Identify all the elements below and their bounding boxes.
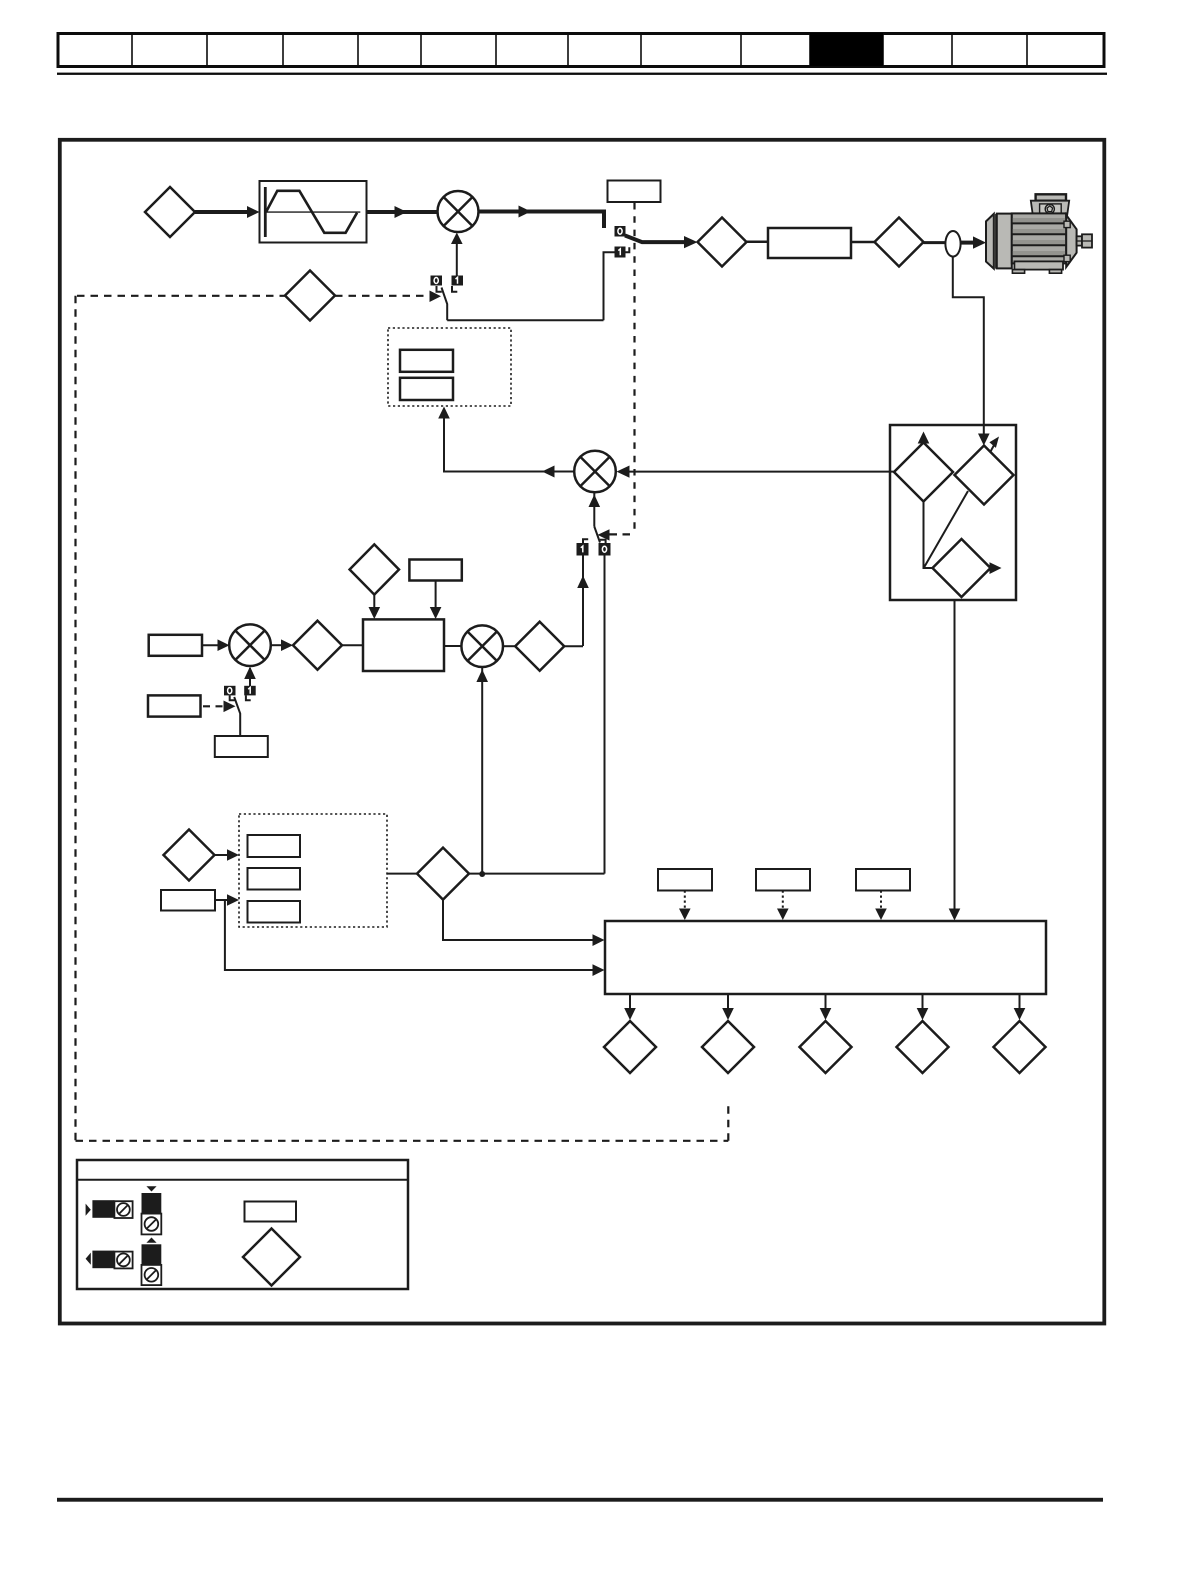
wire sequencer to status 2 (727, 994, 729, 1014)
motor bottom rail (1014, 261, 1063, 269)
node: status diamond 1 (604, 1021, 656, 1073)
dashed wire into hidden diamond (77, 295, 285, 297)
arrowhead up into U3 (244, 667, 256, 680)
main diagram border box (60, 140, 1105, 1324)
arrowhead into multiplier right side (617, 466, 630, 478)
wire: block bottom output down to drive sequencer (954, 600, 956, 914)
switch S2 arm and common (234, 697, 240, 736)
multiplier U2 (frequency circle) (461, 625, 503, 667)
arrowhead mid-wire up (577, 576, 589, 589)
arrowhead into U3 (218, 639, 230, 651)
motor right tabs (1064, 221, 1070, 227)
wire: U2 bottom input from junction (481, 668, 483, 874)
node: status diamond 4 (897, 1021, 949, 1073)
motor collar under box (1034, 219, 1067, 226)
legend vertical parameter box (142, 1214, 162, 1235)
wire: diamond to output terminal (924, 241, 946, 244)
parameter box P2 (248, 868, 301, 890)
legend parameter diamond (243, 1229, 300, 1286)
arrowhead out of top (current magnitude) (923, 438, 925, 443)
wire: diamond bottom to sequencer (443, 900, 598, 940)
arrowhead out right (magnetising current) (991, 567, 996, 569)
switch S2 terminal 0 (224, 686, 236, 696)
wire sequencer to status 3 (825, 994, 827, 1014)
legend down arrow (146, 1186, 156, 1191)
node: status diamond 5 (994, 1021, 1046, 1073)
header table frame (58, 34, 1104, 67)
drive sequencer block (605, 921, 1046, 994)
wire: S3 terminal 1 down to torque chain (582, 556, 584, 647)
wire: S1 common feedback line (447, 319, 603, 321)
wire: S3 terminal 0 down to lower junction (604, 556, 606, 874)
motor M1 (986, 194, 1092, 273)
switch S1 arm and common wire (442, 288, 448, 321)
wire: diagonal inside block (924, 491, 968, 568)
dashed bottom boundary wire (76, 1140, 729, 1142)
wire: diamond into dotted group (215, 854, 233, 856)
wire: block left output toward multiplier (628, 471, 894, 473)
wire: S1 terminal 1 up to multiplier (456, 238, 458, 276)
arrowhead into block top (369, 607, 381, 619)
arrowhead up into U2 (476, 670, 488, 683)
footer rule (57, 1498, 1103, 1502)
arrowhead seq3 (875, 909, 887, 921)
parameter box feeding frequency slip (149, 635, 202, 656)
wire: terminal down to current sense (953, 257, 984, 440)
wire: diamond right to S3-0 line junction (469, 873, 605, 875)
wire sequencer to status 5 (1019, 994, 1021, 1014)
legend title separator (77, 1179, 408, 1181)
parameter box A (400, 350, 453, 372)
motor finned body (1012, 213, 1066, 263)
motor right end cap (1066, 215, 1076, 267)
legend vertical terminal 2 black box (142, 1244, 162, 1265)
ramp block trapezoid waveform (266, 191, 357, 233)
wire: parameter box into block (435, 581, 437, 613)
junction dot (479, 871, 485, 877)
multiplier U3 (slip comp circle) (229, 624, 271, 666)
header underline rule (57, 73, 1107, 75)
wire: diamond to power stage (747, 241, 769, 244)
arrowhead up into multiplier (589, 495, 601, 508)
wire: multiplier bottom to switch S3 (593, 492, 595, 526)
motor cable gland pentagon (1047, 206, 1053, 212)
wire: U3 to post-ramp diamond (271, 644, 287, 646)
motor terminal box body (1031, 201, 1069, 220)
arrowhead into frequency diamond (684, 236, 698, 248)
multiplier U1 (circle with X) (438, 191, 479, 232)
dashed vertical left boundary wire (74, 296, 76, 1141)
arrowhead into sequencer left (lower) (593, 964, 605, 976)
arrowhead seq1 (679, 909, 691, 921)
wire: diamond to frequency control block (342, 644, 363, 646)
wire: multiplier to switch (thick) (479, 212, 605, 229)
legend output parameter symbol (117, 1254, 130, 1267)
ramp block horizontal axis (265, 211, 360, 213)
wire: boost box right with junction (215, 899, 233, 901)
legend output terminal black box (92, 1251, 114, 1269)
motor shaft step (1077, 236, 1082, 245)
arrowhead into dotted group (227, 849, 239, 861)
legend output parameter box (114, 1252, 132, 1269)
parameter box seq2 (756, 869, 810, 891)
motor shaft seam (1077, 240, 1092, 242)
arrowhead into ramp block (247, 206, 260, 218)
dotted parameter group box (388, 328, 511, 406)
motor shaft (1082, 234, 1092, 247)
node: stability gain diamond (350, 544, 399, 594)
power stage block (768, 228, 851, 258)
node: status diamond 3 (800, 1021, 852, 1073)
switch S2 terminal 1 (244, 686, 256, 696)
dotted wire seq2 into sequencer (782, 891, 784, 914)
arrowhead mid-wire left (542, 466, 555, 478)
legend read-write rectangle (245, 1202, 297, 1222)
arrowhead mid-wire (519, 206, 532, 218)
top parameter box (608, 181, 661, 203)
arrowhead mid-wire (395, 206, 408, 218)
legend output terminal arrow (86, 1253, 91, 1265)
dashed control line from top box down (633, 203, 635, 529)
motor foot right (1049, 270, 1061, 274)
arrowhead into motor (973, 236, 986, 248)
wire: power stage to voltage diamond (851, 241, 875, 244)
wire: reference to ramp block (thick) (195, 210, 252, 214)
motor foot left (1012, 270, 1024, 274)
switch S1 terminal-1 stub (452, 286, 457, 292)
legend box (77, 1160, 408, 1289)
wire: multiplier output to parameter box (444, 413, 574, 472)
wire: U2 to output diamond (503, 645, 515, 647)
node: post ramp reference diamond (293, 621, 342, 670)
dashed control wire from vertical to S3 (610, 533, 635, 535)
wire: stability diamond into block (373, 595, 375, 613)
wire into multiplier U3 (202, 644, 223, 646)
current detection block (890, 425, 1016, 600)
switch S3 terminal 0 (599, 543, 611, 556)
node: active current diamond (955, 446, 1014, 505)
switch S1 terminal 1 (452, 276, 464, 286)
legend vertical parameter box 2 (142, 1265, 162, 1285)
wire sequencer to status 4 (922, 994, 924, 1014)
dotted wire seq1 into sequencer (684, 891, 686, 914)
wire: dotted group to voltage diamond (387, 873, 417, 875)
switch S3 terminal 1 (577, 543, 589, 556)
arrowhead at S2 pivot (224, 701, 236, 713)
motor smooth section (997, 214, 1012, 269)
switch S3 terminal-0 stub (600, 540, 606, 545)
motor terminal box inner face (1040, 204, 1062, 217)
motor terminal box top plate (1036, 194, 1066, 200)
arrowhead into current block diamond (978, 434, 990, 446)
ramp block vertical axis (264, 187, 267, 237)
wire: switch S4 terminal 1 to feedback (604, 252, 615, 320)
parameter box seq3 (856, 869, 910, 891)
arrowhead out up-right (active current) (991, 443, 996, 452)
parameter box seq1 (658, 869, 712, 891)
legend input parameter box (114, 1201, 132, 1218)
frequency control block (363, 619, 444, 671)
node: voltage mode selector diamond (164, 830, 215, 881)
wire: ramp block to multiplier (thick) (367, 210, 439, 214)
switch S1 terminal 0 (431, 276, 443, 286)
header table column lines (132, 35, 1027, 65)
switch S1 terminal-0 stub (437, 286, 442, 292)
switch S4 terminal 0 (615, 226, 626, 237)
motor cable gland circle (1045, 204, 1054, 213)
dashed wire from hidden diamond to switch S1 (335, 295, 430, 297)
arrowhead seq2 (777, 909, 789, 921)
parameter box P1 (248, 835, 301, 857)
legend input terminal arrow (86, 1204, 91, 1216)
arrowhead into dotted box bottom (438, 407, 450, 419)
legend input terminal black box (92, 1200, 114, 1218)
node: motor voltage diamond (875, 218, 924, 267)
node: status diamond 2 (702, 1021, 754, 1073)
switch S2 terminal-0 stub (230, 695, 235, 700)
motor left dark strip (994, 214, 997, 269)
motor fin lines (1012, 223, 1066, 256)
arrowhead into multiplier bottom (451, 233, 463, 245)
node: motor frequency diamond (515, 622, 564, 671)
motor fin shading bands (1013, 218, 1065, 256)
legend up arrow (146, 1238, 156, 1243)
parameter box S2 control (148, 695, 201, 716)
wire: current magnitude down to magnetising diamond (924, 502, 933, 569)
motor left end cap (986, 214, 994, 269)
dashed stub up to speed diamond (727, 1105, 729, 1141)
node: output frequency diamond (698, 218, 747, 267)
wire: diamond right to S3 terminal-1 line (564, 645, 583, 647)
parameter box B (400, 378, 453, 400)
parameter box boost (161, 890, 215, 911)
legend vertical parameter symbol (145, 1217, 159, 1231)
multiplier U4 (torque calc circle) (574, 451, 616, 493)
parameter box P3 (248, 901, 301, 923)
node: speed reference diamond (145, 187, 195, 237)
switch S4 terminal 1 (615, 247, 626, 258)
arrowhead into diamond (281, 639, 293, 651)
dashed control wire to S2 (203, 705, 224, 707)
switch S4 arm (to output, thick) (625, 236, 688, 243)
parameter box below S2 (215, 736, 268, 757)
ramp block (260, 181, 367, 243)
wire: terminal to motor (thick) (961, 241, 977, 245)
switch S4 terminal-1 stub (626, 247, 630, 252)
dotted wire seq3 into sequencer (880, 891, 882, 914)
wire: U3 bottom input from switch S2 (249, 668, 251, 686)
wire sequencer to status 1 (629, 994, 631, 1014)
parameter box above block (409, 560, 461, 581)
dotted parameter group box 2 (239, 814, 387, 927)
wire: boost junction down and right to sequencer (225, 900, 598, 970)
switch S2 terminal-1 stub (246, 695, 251, 700)
legend vertical terminal black box (142, 1193, 162, 1214)
legend input parameter symbol (117, 1203, 130, 1216)
legend vertical parameter symbol 2 (145, 1268, 159, 1282)
switch S3 terminal-1 stub (583, 539, 588, 544)
arrowhead at switch S1 (430, 291, 442, 303)
arrowhead into sequencer left (upper) (593, 934, 605, 946)
header active tab (black cell) (810, 33, 883, 66)
node: hidden reference diamond (dashed path) (285, 271, 335, 321)
arrowhead into sequencer top (949, 909, 961, 921)
switch S3 arm (594, 527, 600, 543)
arrowhead at S3 pivot (598, 529, 610, 540)
node: magnetising current diamond (933, 539, 991, 597)
output terminal ellipse (945, 231, 960, 257)
node: voltage reference diamond (417, 848, 469, 900)
arrowhead into dotted group (boost) (227, 894, 239, 906)
wire: block output to multiplier U2 (444, 645, 461, 647)
arrowhead into block top (430, 607, 442, 619)
node: current magnitude diamond (894, 443, 953, 502)
